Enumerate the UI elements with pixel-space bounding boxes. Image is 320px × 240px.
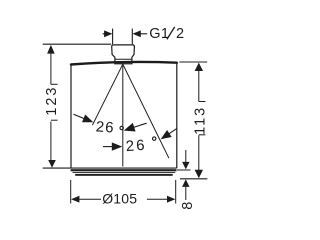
extension line 123 top [43,43,112,45]
angle arrow at left diagonal [74,114,85,119]
tick 123 lower [51,119,58,121]
body right wall [176,63,178,168]
extension line diameter right [175,180,177,204]
svg-text:123: 123 [44,85,60,115]
left spray diagonal [92,64,122,125]
right spray diagonal [123,64,169,158]
connector nut [112,45,135,64]
center line [122,66,124,167]
arrow 113 up [195,63,203,71]
dimension G1/2 leader left [103,33,106,35]
extension line 8 top [177,169,191,171]
svg-text:113: 113 [193,106,209,135]
tick 123 upper [51,83,58,85]
arrow 123 down [48,160,56,168]
arrow G1/2 left [104,30,112,37]
tick 113 upper [199,101,206,103]
arrow G1/2 right [133,30,141,37]
rim band [71,169,177,171]
body left wall [70,65,72,169]
angle arrow at center line from left [103,146,114,148]
arrow 113 down [195,170,203,179]
extension line 113 bottom [180,178,207,180]
angle arrow at center line from right [134,123,147,127]
svg-text:Ø105: Ø105 [102,190,137,206]
spray plate [75,174,173,176]
body top edge [71,62,177,65]
dimension line 123 lower [50,122,52,162]
dimension line 113 upper [198,70,200,102]
dimension G1/2 leader right [140,33,147,35]
angle arrow at right diagonal [169,129,177,135]
extension line thread right [131,29,133,45]
dimension line diameter right part [147,198,168,200]
dimension line 8 upper [185,150,187,162]
plate top line [73,172,176,174]
svg-text:G1: G1 [149,26,169,42]
slash of G1/2 [167,27,175,40]
svg-text:26: 26 [95,118,115,136]
degree circle upper [120,126,123,129]
extension line 113 top [179,61,207,63]
tick 113 lower [199,134,206,136]
svg-text:26: 26 [125,137,147,155]
dimension line diameter left part [79,198,101,200]
dimension line 123 upper [50,52,52,84]
degree circle lower [153,137,156,140]
extension line thread left [112,29,114,45]
arrow 8 up [182,179,189,187]
arrow 123 up [47,45,55,54]
dimension line 113 lower [198,135,200,170]
arrow 8 down [182,162,189,170]
connector collar groove [115,58,132,60]
body bottom line [43,167,177,169]
dimension line 8 lower [185,187,187,200]
svg-text:2: 2 [176,26,184,42]
extension line diameter left [70,180,72,204]
svg-text:8: 8 [180,202,196,210]
arrow diameter right [167,196,175,203]
arrow diameter left [71,196,79,203]
